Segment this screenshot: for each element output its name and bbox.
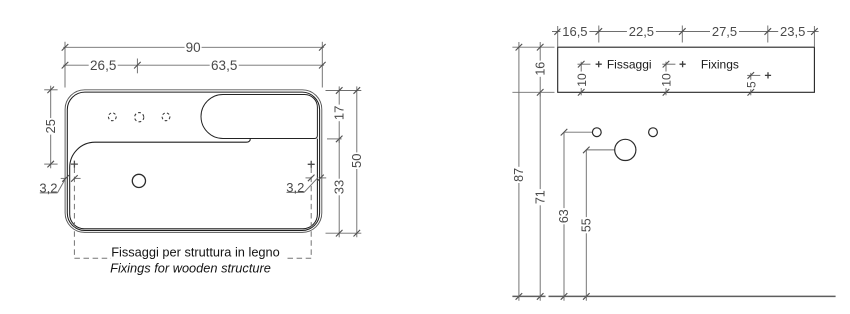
dim text 55 xyxy=(582,217,591,233)
dimension 90 xyxy=(63,42,324,88)
svg-text:90: 90 xyxy=(186,40,201,55)
dimension 33 xyxy=(326,139,362,237)
deck pill outline xyxy=(201,95,317,139)
svg-text:55: 55 xyxy=(580,218,594,232)
dim text 87 xyxy=(514,167,523,183)
fixing hole upper left xyxy=(592,128,601,137)
svg-text:22,5: 22,5 xyxy=(629,24,654,39)
svg-text:17: 17 xyxy=(332,106,347,120)
svg-text:5: 5 xyxy=(744,81,758,88)
svg-text:27,5: 27,5 xyxy=(712,24,737,39)
fixing point cross right xyxy=(308,161,315,168)
tap hole 3 (dashed) xyxy=(162,113,170,121)
dimension 87 xyxy=(518,42,520,301)
svg-text:3,2: 3,2 xyxy=(286,180,304,195)
svg-text:16,5: 16,5 xyxy=(562,24,587,39)
fixing cross 2 xyxy=(680,61,686,67)
svg-text:16: 16 xyxy=(533,62,547,76)
fixing centerline right (dashed) xyxy=(285,168,311,259)
dim text 33 xyxy=(334,179,344,196)
svg-text:Fissaggi: Fissaggi xyxy=(607,58,652,72)
dimension 26,5 / 63,5 xyxy=(63,59,324,74)
basin inner edge xyxy=(70,139,318,229)
svg-text:26,5: 26,5 xyxy=(90,58,116,73)
svg-text:25: 25 xyxy=(43,119,58,133)
basin outer rim line xyxy=(65,90,322,233)
left extension lines xyxy=(512,47,554,92)
fixing cross 3 xyxy=(765,72,771,78)
dim text 50 xyxy=(352,152,362,169)
dim text 71 xyxy=(536,189,545,205)
svg-text:23,5: 23,5 xyxy=(780,24,805,39)
label 3,2 right xyxy=(287,177,327,192)
tap hole 2 (dashed) xyxy=(135,113,144,122)
fixing centerline left (dashed) xyxy=(74,168,111,259)
fixing cross 1 xyxy=(596,61,602,67)
top dimension chain 16,5 / 22,5 / 27,5 / 23,5 xyxy=(552,26,819,48)
dimension 71 xyxy=(539,92,541,300)
fixing point cross left xyxy=(71,161,78,168)
dimension 25 xyxy=(44,86,57,169)
svg-text:Fixings for wooden structure: Fixings for wooden structure xyxy=(110,261,271,276)
drain hole front xyxy=(615,139,636,160)
svg-text:10: 10 xyxy=(575,73,589,87)
dim text 17 xyxy=(334,105,344,122)
svg-text:63: 63 xyxy=(557,209,571,223)
label 3,2 left xyxy=(40,178,81,193)
fixing row dim 10 b (line, ticks, ext) xyxy=(662,62,675,96)
fixing row dim 5 (line, ticks, ext) xyxy=(747,73,760,95)
wall plate rectangle xyxy=(558,47,815,92)
svg-text:87: 87 xyxy=(512,168,526,182)
tap hole 1 (dashed) xyxy=(108,113,116,121)
dim text 25 xyxy=(46,118,56,135)
svg-text:3,2: 3,2 xyxy=(39,180,57,195)
dimension 63 xyxy=(564,132,592,301)
dim text 16 xyxy=(536,61,545,77)
svg-text:33: 33 xyxy=(332,180,347,194)
ground line xyxy=(512,295,835,297)
svg-text:63,5: 63,5 xyxy=(211,58,237,73)
svg-text:Fissaggi per struttura in legn: Fissaggi per struttura in legno xyxy=(111,244,280,259)
drain hole xyxy=(132,174,145,187)
dimension 17 xyxy=(326,86,362,143)
dimension 55 xyxy=(586,150,614,301)
fixing hole upper right xyxy=(649,128,658,137)
basin mid rim line xyxy=(67,92,319,230)
svg-text:Fixings: Fixings xyxy=(701,58,739,72)
fixing row dim 10 a (line, ticks, ext) xyxy=(578,62,591,96)
dimension 50 xyxy=(356,86,358,237)
svg-text:10: 10 xyxy=(660,73,674,87)
svg-text:71: 71 xyxy=(533,190,547,204)
svg-text:50: 50 xyxy=(349,153,364,167)
dimension 16 xyxy=(539,42,541,97)
dim text 63 xyxy=(559,208,568,224)
